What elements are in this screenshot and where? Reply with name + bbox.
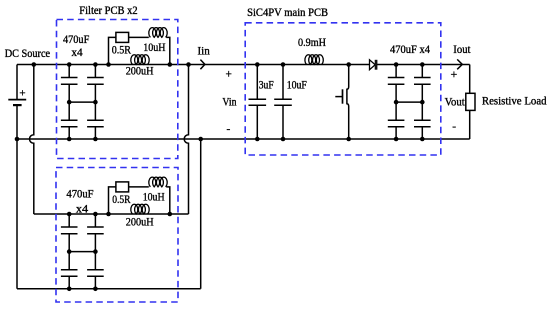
wire: negative feed down to lower filter rail bbox=[16, 139, 18, 289]
node: filter1 column2 top bbox=[93, 62, 98, 67]
node: MOSFET source bbox=[346, 137, 351, 142]
resistor R2 0.5R (filter2) bbox=[116, 182, 129, 192]
svg-text:0.5R: 0.5R bbox=[112, 44, 132, 56]
node: output column1 top bbox=[394, 62, 399, 67]
battery long plate (+) bbox=[8, 99, 26, 101]
node: filter1 damping right bbox=[168, 62, 173, 67]
capacitor bank C1c (filter1 column2 upper) bbox=[87, 65, 104, 85]
capacitor bank C1d (filter1 column2 lower) bbox=[87, 84, 104, 139]
capacitor bank C1a (filter1 column1 upper) bbox=[61, 65, 78, 85]
svg-text:200uH: 200uH bbox=[126, 216, 154, 228]
node: 3uF bottom bbox=[255, 137, 260, 142]
svg-text:470uF: 470uF bbox=[63, 34, 89, 46]
wire: main top rail bbox=[17, 64, 470, 66]
arrow: Iout current direction bbox=[457, 59, 462, 69]
inductor L4 200uH (filter2) bbox=[131, 204, 149, 214]
svg-text:3uF: 3uF bbox=[259, 80, 274, 92]
svg-text:+: + bbox=[451, 67, 458, 81]
node: filter1 column1 top bbox=[67, 62, 72, 67]
node: filter1 damping left bbox=[106, 62, 111, 67]
capacitor bank C6c (output column2 upper) bbox=[414, 65, 431, 85]
transistor Q1 gate lead bbox=[335, 96, 342, 98]
capacitor C4 10uF (input) bbox=[274, 65, 292, 140]
capacitor bank C2b (filter2 column1 lower) bbox=[61, 234, 78, 289]
capacitor bank C2a (filter2 column1 upper) bbox=[61, 214, 78, 234]
capacitor bank C1b (filter1 column1 lower) bbox=[61, 84, 78, 139]
capacitor bank C6a (output column1 upper) bbox=[388, 65, 405, 85]
svg-text:10uH: 10uH bbox=[143, 42, 165, 54]
node: filter2 midpoint right bbox=[93, 249, 98, 254]
boundary: Filter PCB x2 dashed box (upper) bbox=[57, 20, 178, 159]
svg-text:DC Source: DC Source bbox=[5, 48, 50, 60]
svg-text:200uH: 200uH bbox=[126, 66, 154, 78]
resistor R1 0.5R (filter1) bbox=[116, 32, 129, 42]
node: 10uF top bbox=[281, 62, 286, 67]
node: filter2 column1 bottom bbox=[67, 287, 72, 292]
node: output column1 bottom bbox=[394, 137, 399, 142]
svg-text:470uF: 470uF bbox=[66, 189, 93, 201]
node: filter1 midpoint right bbox=[93, 100, 98, 105]
node: filter1 column1 bottom bbox=[67, 137, 72, 142]
wire: lower filter output riser with hop over bottom rail bbox=[184, 65, 188, 215]
node: filter2 ground return junction bbox=[198, 137, 203, 142]
wire: positive feed to lower filter with hop over bottom rail bbox=[29, 65, 33, 215]
node: filter2 output joins top rail bbox=[186, 62, 191, 67]
node: filter2 column2 bottom bbox=[93, 287, 98, 292]
wire: load top lead bbox=[469, 65, 471, 94]
svg-text:Vout: Vout bbox=[445, 96, 466, 108]
wire: filter1 damping branch bbox=[109, 37, 170, 64]
node: filter2 column1 top bbox=[67, 212, 72, 217]
boundary: SiC4PV main PCB dashed box bbox=[245, 23, 441, 155]
svg-text:10uH: 10uH bbox=[143, 191, 165, 203]
svg-text:x4: x4 bbox=[71, 47, 83, 59]
svg-text:Vin: Vin bbox=[222, 97, 236, 109]
capacitor C3 3uF (input) bbox=[249, 65, 267, 140]
svg-text:Resistive Load: Resistive Load bbox=[482, 96, 547, 108]
svg-text:10uF: 10uF bbox=[287, 80, 307, 92]
transistor Q1 SiC MOSFET channel/drain/source bbox=[347, 65, 349, 140]
svg-text:0.9mH: 0.9mH bbox=[298, 37, 326, 49]
wire: lower filter bottom rail bbox=[17, 288, 201, 290]
diode D1 triangle bbox=[370, 60, 376, 70]
node: filter2 damping right bbox=[168, 212, 173, 217]
svg-text:Iin: Iin bbox=[198, 45, 211, 57]
wire: load bottom lead bbox=[469, 110, 471, 139]
svg-text:x4: x4 bbox=[76, 203, 89, 215]
svg-text:+: + bbox=[226, 68, 232, 80]
svg-text:Iout: Iout bbox=[453, 44, 471, 56]
svg-text:-: - bbox=[227, 123, 231, 135]
inductor L5 0.9mH (boost) bbox=[305, 55, 323, 65]
node: filter1 column2 bottom bbox=[93, 137, 98, 142]
arrow: Iin current direction bbox=[200, 60, 205, 70]
inductor L3 10uH (filter2) bbox=[149, 177, 167, 187]
wire: lower filter damping branch bbox=[109, 187, 170, 214]
inductor L2 200uH (filter1) bbox=[131, 55, 149, 65]
node: output column2 top bbox=[420, 62, 425, 67]
wire: filter1 capacitor midpoint link bbox=[69, 101, 95, 103]
diode D1 cathode bar bbox=[375, 60, 378, 70]
capacitor bank C2d (filter2 column2 lower) bbox=[87, 234, 104, 289]
DC source battery lead (negative) bbox=[16, 105, 18, 139]
capacitor bank C6d (output column2 lower) bbox=[414, 84, 431, 139]
svg-text:0.5R: 0.5R bbox=[112, 194, 131, 206]
node: 10uF bottom bbox=[281, 137, 286, 142]
wire: filter2 capacitor midpoint link bbox=[69, 251, 95, 253]
resistor RL resistive load body bbox=[466, 93, 475, 110]
svg-text:SiC4PV main PCB: SiC4PV main PCB bbox=[247, 7, 328, 19]
node: filter2 midpoint left bbox=[67, 249, 72, 254]
capacitor bank C6b (output column1 lower) bbox=[388, 84, 405, 139]
node: battery negative junction bbox=[15, 137, 20, 142]
node: 3uF top bbox=[255, 62, 260, 67]
DC source battery lead (positive) bbox=[16, 65, 18, 100]
transistor Q1 gate bar bbox=[342, 89, 344, 103]
svg-text:+: + bbox=[19, 87, 25, 99]
node: output midpoint left bbox=[394, 100, 399, 105]
wire: output capacitor midpoint link bbox=[396, 101, 422, 103]
node: top rail / filter2 feed junction bbox=[32, 62, 37, 67]
node: output midpoint right bbox=[420, 100, 425, 105]
svg-text:470uF x4: 470uF x4 bbox=[390, 44, 430, 56]
node: filter2 damping left bbox=[106, 212, 111, 217]
node: filter2 column2 top bbox=[93, 212, 98, 217]
wire: main bottom rail bbox=[17, 138, 470, 140]
node: filter1 midpoint left bbox=[67, 100, 72, 105]
node: MOSFET drain bbox=[346, 62, 351, 67]
battery short plate (-) bbox=[13, 104, 22, 106]
svg-text:-: - bbox=[452, 121, 456, 133]
node: output column2 bottom bbox=[420, 137, 425, 142]
inductor L1 10uH (filter1) bbox=[149, 28, 167, 38]
wire: lower filter main line bbox=[34, 213, 189, 215]
svg-text:Filter PCB x2: Filter PCB x2 bbox=[79, 5, 138, 17]
wire: lower filter ground return riser bbox=[200, 139, 202, 289]
boundary: Filter PCB dashed box (lower) bbox=[56, 168, 178, 303]
capacitor bank C2c (filter2 column2 upper) bbox=[87, 214, 104, 234]
